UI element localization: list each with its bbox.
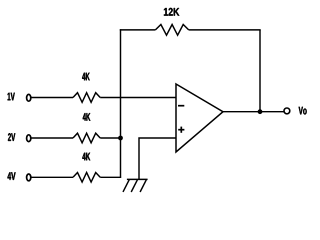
label 12K (feedback resistor value) bbox=[164, 8, 179, 16]
input label 1V bbox=[8, 93, 15, 101]
resistor R3 4K (zigzag) bbox=[73, 173, 100, 183]
wire (R1 through bus node to op-amp inverting input) bbox=[100, 97, 176, 99]
junction dot (summing node on bus) bbox=[118, 136, 123, 141]
wire (R2 to summing node) bbox=[100, 137, 120, 139]
wire (4V terminal to R3) bbox=[31, 176, 73, 178]
wire (2V terminal to R2) bbox=[31, 137, 73, 139]
wire (input bus up to feedback loop) bbox=[120, 29, 122, 178]
wire (feedback top, left segment) bbox=[120, 29, 156, 31]
op-amp inverting input symbol (minus) bbox=[178, 105, 184, 107]
ground (top bar) bbox=[127, 178, 148, 180]
terminal circle (Vo output) bbox=[284, 108, 290, 114]
ground (hatch slash 1) bbox=[123, 180, 129, 192]
ground (hatch slash 3) bbox=[140, 180, 146, 192]
terminal circle (1V input) bbox=[27, 94, 31, 101]
terminal circle (2V input) bbox=[27, 135, 31, 142]
output label Vo bbox=[299, 107, 307, 115]
label 4K (R1 value) bbox=[82, 73, 90, 81]
resistor RF 12K (zigzag) bbox=[155, 25, 188, 36]
ground (hatch slash 2) bbox=[131, 180, 137, 192]
wire (feedback top, right segment) bbox=[189, 29, 261, 31]
label 4K (R2 value) bbox=[83, 113, 91, 121]
wire (feedback right drop to output node) bbox=[259, 30, 261, 112]
wire (R3 to bus corner) bbox=[100, 176, 121, 178]
label 4K (R3 value) bbox=[82, 153, 90, 161]
junction dot (feedback meets output) bbox=[258, 109, 263, 114]
input label 2V bbox=[8, 133, 15, 141]
input label 4V bbox=[8, 172, 16, 180]
op-amp U1 (triangle body) bbox=[176, 84, 223, 152]
wire (1V terminal to R1) bbox=[31, 97, 73, 99]
wire (non-inverting input to ground stem) bbox=[139, 138, 177, 179]
resistor R1 4K (zigzag) bbox=[73, 93, 100, 103]
resistor R2 4K (zigzag) bbox=[73, 133, 100, 143]
wire (op-amp output to Vo terminal) bbox=[223, 111, 284, 113]
terminal circle (4V input) bbox=[27, 174, 31, 181]
op-amp non-inverting input symbol (plus) bbox=[178, 129, 184, 131]
